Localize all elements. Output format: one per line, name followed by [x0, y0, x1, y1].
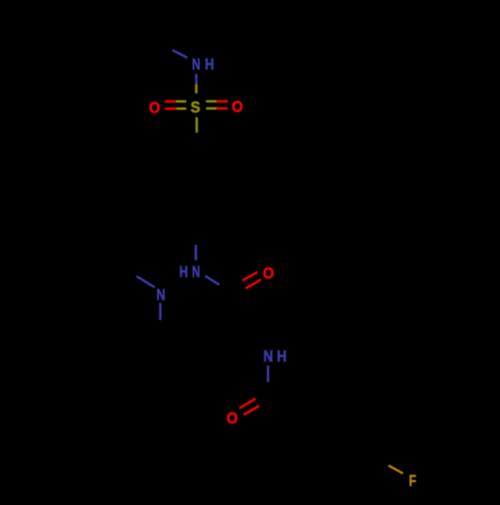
svg-text:N: N — [192, 262, 200, 280]
svg-text:O: O — [149, 99, 160, 117]
svg-text:N: N — [156, 287, 165, 305]
svg-text:O: O — [263, 265, 274, 283]
svg-text:O: O — [232, 98, 243, 116]
svg-text:H: H — [179, 262, 188, 280]
svg-text:S: S — [190, 99, 200, 117]
svg-text:H: H — [277, 349, 287, 366]
svg-text:O: O — [227, 410, 238, 428]
svg-text:N: N — [263, 349, 273, 366]
svg-text:H: H — [205, 56, 214, 74]
svg-text:N: N — [192, 55, 200, 73]
svg-text:F: F — [409, 473, 417, 491]
